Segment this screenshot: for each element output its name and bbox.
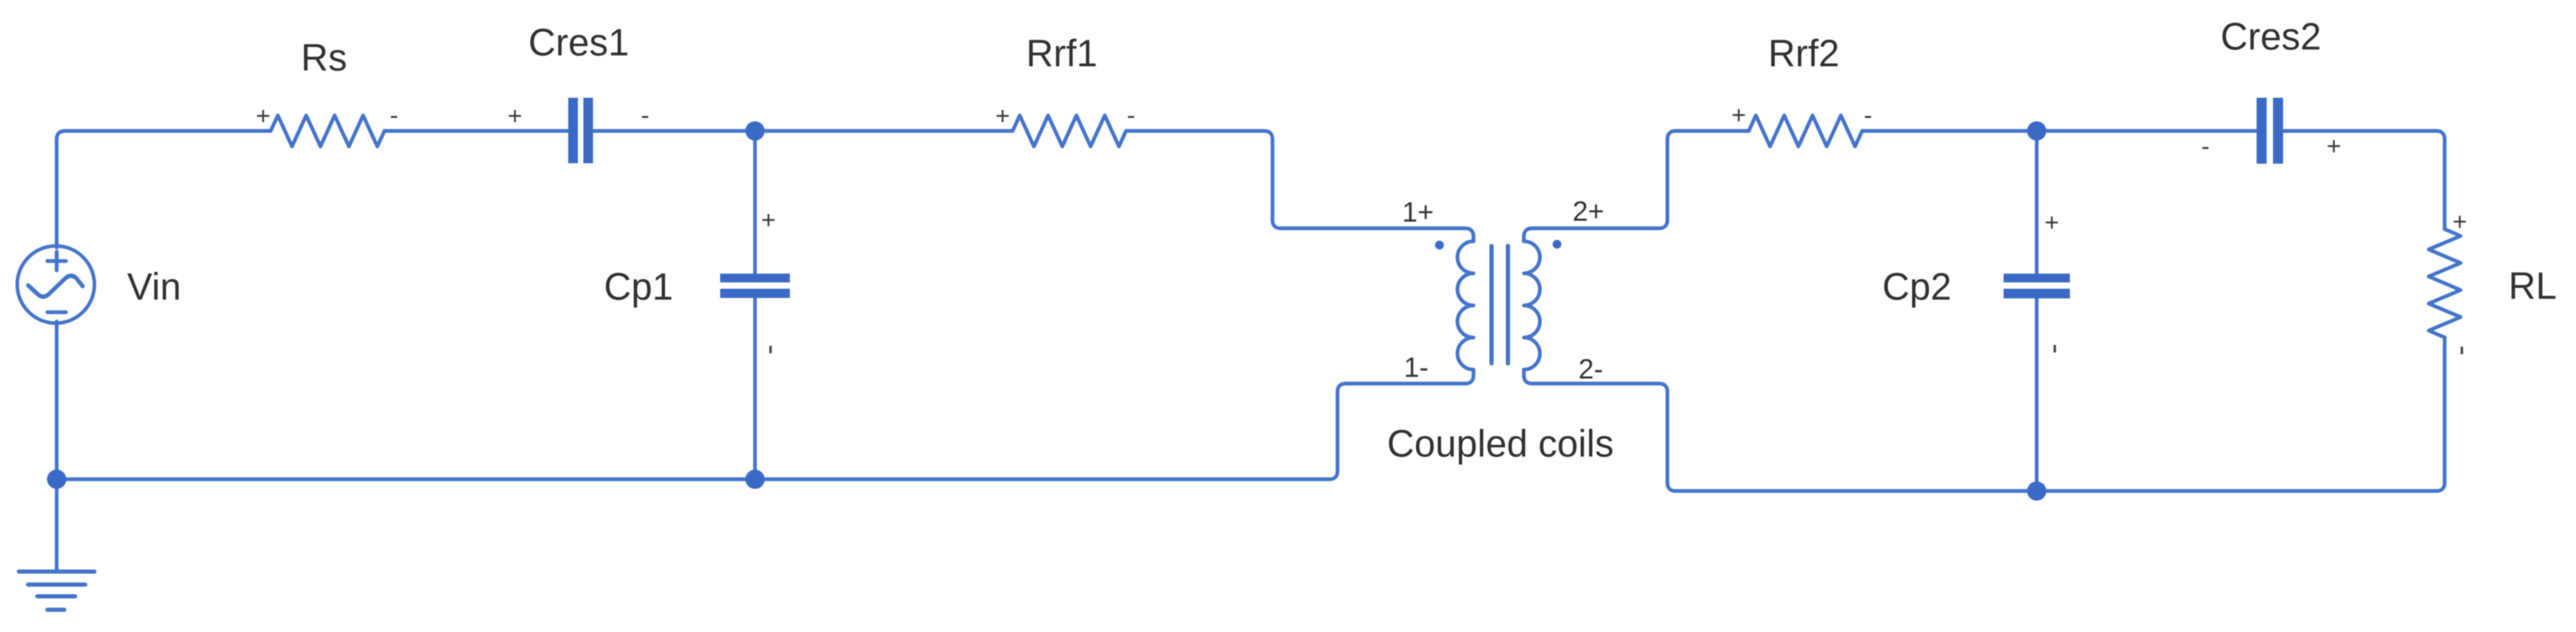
voltage source Vin sine wave xyxy=(29,276,83,297)
node A junction dot xyxy=(745,122,765,141)
ground xyxy=(19,572,95,610)
svg-text:+: + xyxy=(2045,209,2060,237)
svg-text:+: + xyxy=(256,102,271,130)
capacitor Cp1 plates xyxy=(720,274,790,283)
svg-text:2+: 2+ xyxy=(1573,196,1605,227)
voltage source Vin minus sign xyxy=(48,311,66,315)
node C junction dot xyxy=(2027,122,2046,141)
svg-text:+: + xyxy=(2327,133,2342,160)
svg-text:Rrf1: Rrf1 xyxy=(1027,32,1098,75)
svg-text:-: - xyxy=(2202,133,2210,160)
svg-text:Cres2: Cres2 xyxy=(2221,15,2322,58)
wire Cp2 bottom to node D xyxy=(2035,298,2038,491)
svg-text:+: + xyxy=(761,206,776,234)
capacitor Cres2 plates xyxy=(2257,98,2267,165)
wire node C to Cp2 top xyxy=(2035,131,2038,274)
wire Rs to Cres1 xyxy=(384,129,569,133)
svg-text:+: + xyxy=(1732,102,1747,129)
svg-text:Rs: Rs xyxy=(301,36,347,79)
wire coil terminal 2- to RL bottom rail xyxy=(1524,337,2445,491)
capacitor Cres1 plates xyxy=(568,98,578,164)
svg-text:Coupled coils: Coupled coils xyxy=(1387,422,1614,465)
inductor L2 secondary winding xyxy=(1524,241,1540,369)
wire coil terminal 1- to bottom rail xyxy=(57,369,1474,479)
svg-text:-: - xyxy=(1864,102,1873,129)
capacitor Cp2 plates xyxy=(2004,274,2070,283)
svg-text:Vin: Vin xyxy=(128,265,181,308)
transformer core xyxy=(1492,246,1508,363)
svg-text:Rrf2: Rrf2 xyxy=(1769,32,1840,75)
voltage source Vin plus sign xyxy=(48,252,66,270)
svg-text:RL: RL xyxy=(2509,264,2558,307)
wire coil terminal 2+ to Rrf2 xyxy=(1524,131,1749,241)
svg-text:1-: 1- xyxy=(1404,352,1429,383)
resistor Rrf1 xyxy=(1013,116,1126,147)
inductor L1 primary winding xyxy=(1457,241,1473,369)
svg-text:-: - xyxy=(1127,102,1136,129)
svg-text:1+: 1+ xyxy=(1403,196,1434,227)
node D junction dot xyxy=(2027,482,2046,501)
polarity minus Cp1 xyxy=(770,346,772,353)
resistor RL xyxy=(2429,229,2461,337)
phase dot L2 xyxy=(1553,240,1562,249)
wire Cp1 bottom to node B xyxy=(753,298,756,479)
resistor Rrf2 xyxy=(1749,116,1863,147)
polarity minus Cp2 xyxy=(2054,345,2056,353)
wire Vin top to Rs xyxy=(57,131,271,248)
wire Rrf1 to coil terminal 1+ xyxy=(1126,131,1474,241)
polarity minus RL xyxy=(2461,347,2464,354)
wire Cres2 to RL top xyxy=(2283,131,2445,229)
svg-text:Cres1: Cres1 xyxy=(529,21,630,64)
wire node A to Cp1 top xyxy=(753,131,756,274)
wire Vin bottom to ground xyxy=(55,321,58,572)
svg-text:-: - xyxy=(641,102,650,129)
svg-text:-: - xyxy=(390,102,399,129)
voltage source Vin circle xyxy=(18,246,95,323)
svg-text:+: + xyxy=(508,102,523,130)
resistor Rs xyxy=(271,116,385,147)
svg-text:+: + xyxy=(2453,208,2468,236)
wire Rrf2 to Cres2 xyxy=(1863,129,2258,133)
svg-text:2-: 2- xyxy=(1579,353,1603,384)
svg-text:Cp2: Cp2 xyxy=(1883,265,1952,308)
svg-text:Cp1: Cp1 xyxy=(604,265,674,308)
svg-text:+: + xyxy=(995,102,1011,130)
wire Cres1 to Rrf1 xyxy=(593,129,1013,133)
node B junction dot xyxy=(745,470,765,489)
ground node junction dot xyxy=(47,470,66,489)
phase dot L1 xyxy=(1435,241,1445,250)
